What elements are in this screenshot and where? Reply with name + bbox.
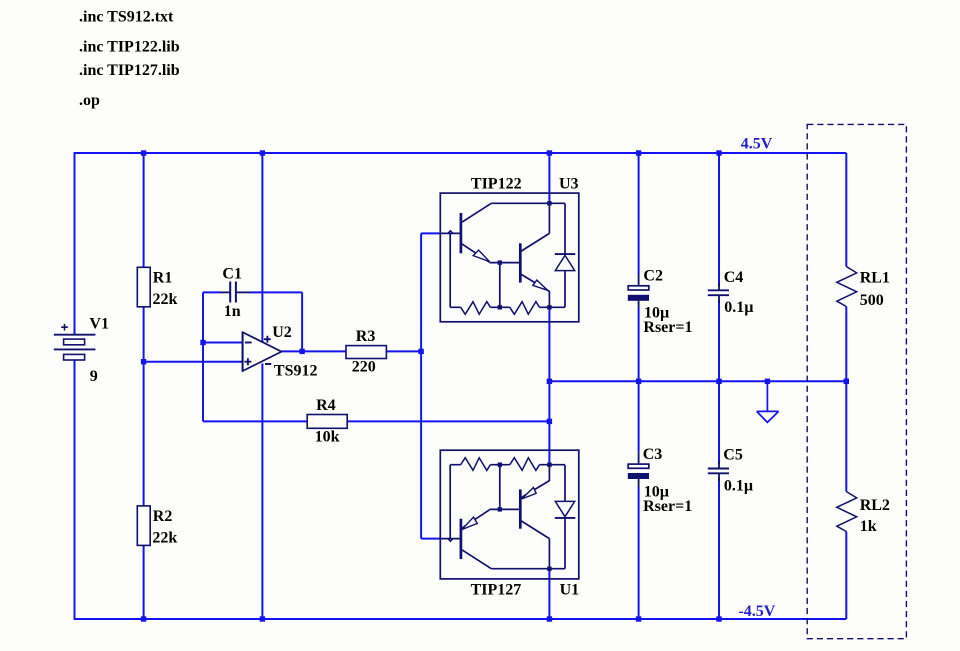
svg-text:RL1: RL1 [860,269,890,286]
C3 value label [644,483,669,500]
R2 value label [152,530,177,547]
C4 name label [724,269,744,286]
wire inverting node vertical [202,292,204,421]
RL1 value label [860,292,884,309]
C1 name label [222,266,242,283]
wire U1 collector to rail [548,569,550,619]
wire base stub to U1 [421,538,440,540]
spice directive .op [79,92,100,109]
svg-text:0.1µ: 0.1µ [724,477,753,494]
wire R4 right to emitter node [347,420,549,422]
wire C2 bottom [638,308,640,381]
svg-text:1k: 1k [860,518,877,535]
V1 value label 9 [90,368,98,385]
svg-text:TIP127: TIP127 [471,582,522,599]
svg-text:RL2: RL2 [860,497,890,514]
svg-text:.op: .op [79,92,100,109]
junction bottom rail C3 [636,616,641,621]
C5 name label [723,447,743,464]
svg-text:4.5V: 4.5V [741,135,773,152]
U1 name label [560,582,580,599]
wire C3 bottom [638,487,640,620]
svg-text:Rser=1: Rser=1 [643,319,692,336]
voltage source V1 battery symbol [54,324,96,360]
svg-text:U2: U2 [272,324,292,341]
junction emitter-R4 node [547,419,552,424]
svg-text:U3: U3 [559,176,579,193]
wire C5 top [718,381,720,464]
RL2 name label [860,497,890,514]
junction mid rail ground [765,379,770,384]
wire top +4.5V rail [75,152,847,154]
svg-text:-4.5V: -4.5V [738,603,775,620]
darlington U3 TIP122 [440,193,579,322]
U1 type label TIP127 [471,582,522,599]
capacitor C1 [221,282,251,303]
wire divider to opamp +in [144,361,243,363]
net label -4.5V [738,603,775,620]
wire RL1 top [845,153,847,267]
wire opamp V+ supply [261,153,263,342]
C3 name label [643,446,663,463]
wire RL1-RL2 middle [845,307,847,492]
wire V1 top lead [74,152,76,335]
svg-text:10k: 10k [315,428,340,445]
svg-text:C4: C4 [724,269,744,286]
op-amp U2 V- mark [265,363,271,365]
junction top rail opamp V+ [260,150,265,155]
svg-text:TS912: TS912 [274,362,318,379]
resistor R3 [346,346,386,359]
svg-text:0.1µ: 0.1µ [724,299,753,316]
wire C3 top [638,381,640,452]
spice directive .inc TIP122.lib [79,38,180,55]
resistor RL2 [837,492,857,532]
op-amp U2 plus input mark [244,358,251,365]
svg-text:500: 500 [860,292,884,309]
junction mid rail C4 [716,379,721,384]
U3 type label TIP122 [471,176,522,193]
op-amp U2 minus input mark [245,342,252,344]
junction top rail C2 [636,150,641,155]
dashed load outline box [807,124,906,638]
U3 name label [559,176,579,193]
resistor R1 [137,267,150,307]
wire R4 left [203,420,307,422]
R4 name label [316,397,336,414]
junction opamp output [299,349,304,354]
junction bottom rail U1 [547,616,552,621]
net label 4.5V [741,135,773,152]
wire base stub to U3 [421,232,440,234]
wire bottom -4.5V rail [75,618,847,620]
wire U3 collector from rail [548,153,550,203]
capacitor C5 [708,461,729,481]
svg-text:R3: R3 [356,328,376,345]
wire C1 right drop to output [301,292,303,351]
wire mid output rail [549,380,846,382]
svg-text:C2: C2 [643,267,663,284]
spice directive .inc TS912.txt [79,8,174,25]
capacitor C3 polarized [628,452,649,487]
svg-text:C1: C1 [222,266,242,283]
U2 value label TS912 [274,362,318,379]
svg-text:22k: 22k [153,291,178,308]
R3 value label [352,358,376,375]
darlington U1 TIP127 [440,450,579,579]
C2 value label [644,305,669,322]
ground symbol [757,381,779,422]
wire emitter node vertical [548,307,550,465]
junction bottom rail C5 [716,616,721,621]
junction top rail C4 [716,150,721,155]
wire opamp output to R3 [282,350,347,352]
resistor R2 [137,506,150,546]
svg-text:R2: R2 [153,508,173,525]
junction divider node [141,359,146,364]
wire R1-R2 middle [143,307,145,506]
capacitor C2 polarized [628,274,649,309]
wire RL2 bottom [845,532,847,620]
junction top rail R1 [141,150,146,155]
wire C5 bottom [718,478,720,619]
svg-text:C3: C3 [643,446,663,463]
junction mid rail C2 [636,379,641,384]
junction inverting input node [200,340,205,345]
svg-text:9: 9 [90,368,98,385]
spice directive .inc TIP127.lib [79,62,180,79]
junction top rail U3 collector [547,150,552,155]
RL2 value label [860,518,877,535]
resistor R4 [307,415,347,429]
junction bottom rail R2 [141,616,146,621]
svg-text:22k: 22k [152,530,177,547]
svg-text:C5: C5 [723,447,743,464]
wire C2 top [638,153,640,274]
resistor RL1 [837,267,857,307]
wire R2 bottom [143,545,145,619]
svg-text:V1: V1 [89,316,109,333]
R1 name label [153,270,173,287]
U2 name label [272,324,292,341]
junction mid rail emitter [547,379,552,384]
R4 value label [315,428,340,445]
svg-text:Rser=1: Rser=1 [643,498,692,515]
svg-text:TIP122: TIP122 [471,176,522,193]
svg-text:.inc TS912.txt: .inc TS912.txt [79,8,174,25]
wire opamp V- supply [261,363,263,619]
op-amp U2 triangle [243,332,282,371]
C3 Rser label [643,498,692,515]
C4 value label [724,299,753,316]
wire C1 right [250,291,302,293]
svg-text:.inc TIP122.lib: .inc TIP122.lib [79,38,180,55]
C5 value label [724,477,753,494]
R1 value label [153,291,178,308]
wire C1 left [203,291,221,293]
capacitor C4 [708,283,729,303]
svg-text:.inc TIP127.lib: .inc TIP127.lib [79,62,180,79]
C1 value label [224,303,241,320]
svg-text:R4: R4 [316,397,336,414]
wire V1 bottom lead [74,360,76,620]
R2 name label [153,508,173,525]
wire C4 bottom [718,300,720,381]
C2 name label [643,267,663,284]
svg-text:1n: 1n [224,303,241,320]
wire R1 top [143,153,145,267]
RL1 name label [860,269,890,286]
svg-text:U1: U1 [560,582,580,599]
R3 name label [356,328,376,345]
junction bottom rail opamp V- [260,616,265,621]
junction mid rail RL [844,379,849,384]
junction base node [418,349,423,354]
wire C4 top [718,153,720,286]
op-amp U2 V+ mark [264,336,271,343]
V1 name label [89,316,109,333]
C2 Rser label [643,319,692,336]
wire base vertical U3-U1 [420,233,422,538]
wire R3 to base node [386,350,421,352]
wire inv node to opamp -in [203,342,243,344]
svg-text:220: 220 [352,358,376,375]
svg-text:R1: R1 [153,270,173,287]
